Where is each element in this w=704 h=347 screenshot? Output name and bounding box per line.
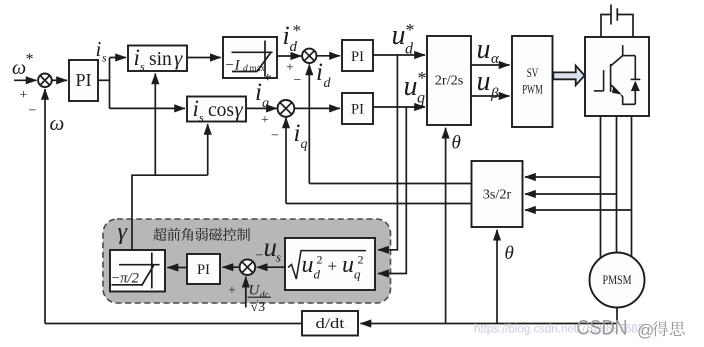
- wire PMSM shaft/encoder down: [616, 308, 618, 324]
- wire phase A: [600, 116, 602, 258]
- wire omega* input: [14, 79, 37, 81]
- wire speed PI output / i_s branch: [98, 79, 110, 81]
- wire phase B: [616, 116, 618, 252]
- svg-text:CSDN: CSDN: [577, 317, 628, 340]
- svg-text:*: *: [26, 51, 34, 68]
- wire sqrt block to us junction: [257, 266, 285, 268]
- wire theta into 3s/2r: [496, 230, 498, 324]
- PI q-axis current controller: [342, 93, 373, 124]
- block 3s/2r (Clarke/Park): [472, 161, 523, 227]
- saturation limiter -Idmax: [223, 37, 277, 78]
- svg-text:U: U: [249, 283, 261, 299]
- svg-text:PI: PI: [351, 102, 364, 118]
- PI d-axis current controller: [342, 40, 373, 71]
- summing junction (speed error): [38, 74, 52, 88]
- svg-text:q: q: [417, 90, 425, 107]
- svg-text:γ: γ: [118, 219, 128, 245]
- svg-text:d: d: [290, 39, 298, 55]
- wire phase C tap to 3s/2r: [525, 209, 632, 211]
- svg-text:u: u: [477, 34, 491, 65]
- svg-text:cos: cos: [208, 100, 234, 121]
- wire us junction to PI: [223, 266, 240, 268]
- PI speed controller: [69, 60, 98, 101]
- svg-text:2: 2: [358, 253, 364, 267]
- svg-text:+: +: [261, 113, 269, 128]
- svg-text:u: u: [477, 66, 491, 97]
- svg-text:θ: θ: [505, 243, 514, 264]
- svg-text:q: q: [301, 137, 308, 152]
- svg-text:−: −: [271, 129, 279, 144]
- svg-text:dc: dc: [260, 290, 269, 300]
- wire speed PI input: [52, 79, 67, 81]
- wire position feedback to d/dt: [361, 323, 618, 325]
- summing junction u_s error: [240, 259, 256, 275]
- svg-text:PI: PI: [197, 262, 210, 278]
- svg-text:3s/2r: 3s/2r: [483, 188, 512, 203]
- block inverter: [585, 37, 649, 116]
- svg-text:s: s: [140, 60, 145, 74]
- svg-text:d: d: [243, 64, 248, 74]
- label: lead-angle field weakening control (Chinese): [153, 228, 250, 241]
- svg-text:q: q: [354, 267, 361, 282]
- wire U_dc/sqrt3 input: [245, 277, 247, 308]
- wire phase A tap to 3s/2r: [525, 176, 601, 178]
- svg-text:s: s: [276, 250, 281, 265]
- motor PMSM: [590, 253, 645, 308]
- svg-text:@: @: [637, 321, 654, 340]
- svg-text:√3: √3: [251, 300, 266, 315]
- DC supply battery symbol: [601, 5, 633, 38]
- block sqrt(ud^2+uq^2): [285, 238, 375, 290]
- wire u_d* branch down to sqrt block: [378, 55, 397, 250]
- svg-text:−: −: [256, 249, 264, 264]
- svg-text:ω: ω: [12, 57, 26, 79]
- svg-text:s: s: [102, 51, 107, 65]
- svg-text:PI: PI: [351, 49, 364, 65]
- wire u_d* to 2r/2s: [373, 54, 425, 56]
- svg-text:i: i: [134, 45, 140, 70]
- wire omega feedback rise: [44, 89, 46, 324]
- svg-text:i: i: [193, 96, 199, 121]
- field-weakening region (dashed gray box): [103, 219, 391, 303]
- svg-text:d: d: [405, 41, 414, 58]
- svg-text:+: +: [20, 88, 28, 103]
- wire i_s to sin block: [110, 57, 127, 59]
- svg-text:u: u: [302, 252, 314, 278]
- svg-text:d/dt: d/dt: [316, 316, 346, 332]
- wire d/dt output to speed feedback: [45, 323, 302, 325]
- svg-text:u: u: [264, 232, 278, 262]
- wire phase B tap to 3s/2r: [525, 193, 617, 195]
- block i_s cos gamma: [187, 97, 246, 122]
- svg-text:*: *: [264, 70, 273, 89]
- saturation limiter -pi/2: [110, 250, 165, 292]
- wire iq junction to PI: [295, 107, 341, 109]
- svg-text:−I: −I: [225, 58, 241, 74]
- summing junction i_q: [278, 100, 295, 117]
- wire u_q* branch down to sqrt block: [378, 107, 406, 274]
- wire i_d feedback (from 3s/2r): [309, 183, 471, 185]
- summing junction i_d: [302, 49, 316, 63]
- wire cos to iq junction: [246, 107, 277, 109]
- block d/dt: [302, 311, 358, 336]
- svg-text:i: i: [294, 120, 301, 147]
- svg-text:ω: ω: [50, 111, 65, 135]
- svg-text:d: d: [314, 267, 321, 282]
- wire PI to -pi/2 limiter: [168, 267, 188, 269]
- svg-text:u: u: [392, 20, 406, 51]
- hollow arrow SVPWM to inverter: [553, 66, 584, 86]
- wire limiter to id junction: [277, 55, 301, 57]
- block i_s sin gamma: [128, 46, 187, 72]
- PI field-weakening controller: [187, 254, 220, 284]
- svg-text:i: i: [255, 79, 262, 106]
- wire gamma up to sin/cos blocks: [132, 175, 208, 250]
- wire id junction to PI: [316, 55, 340, 57]
- svg-text:+: +: [228, 284, 236, 299]
- wire u_beta: [471, 95, 510, 97]
- svg-text:PMSM: PMSM: [603, 272, 632, 287]
- block SVPWM: [512, 36, 553, 127]
- svg-text:d: d: [324, 76, 332, 91]
- svg-text:i: i: [316, 59, 323, 86]
- svg-text:u: u: [404, 71, 418, 102]
- wire i_s to cos block: [110, 107, 186, 109]
- svg-text:−π/2: −π/2: [111, 271, 139, 287]
- svg-text:θ: θ: [452, 133, 461, 154]
- block 2r/2s (inverse Park): [427, 36, 471, 125]
- wire u_q* to 2r/2s: [373, 106, 425, 108]
- svg-text:+: +: [328, 257, 338, 276]
- svg-text:PI: PI: [75, 70, 91, 90]
- wire i_q feedback (from 3s/2r): [286, 203, 472, 205]
- svg-text:sin: sin: [149, 49, 172, 70]
- svg-text:SV: SV: [527, 65, 539, 80]
- svg-text:*: *: [418, 68, 427, 88]
- svg-text:β: β: [490, 86, 499, 102]
- svg-text:γ: γ: [174, 46, 183, 70]
- wire u_alpha: [471, 64, 510, 66]
- wire theta into 2r/2s: [445, 128, 447, 324]
- svg-text:s: s: [199, 111, 204, 125]
- svg-text:−: −: [29, 104, 37, 119]
- svg-text:u: u: [342, 252, 354, 278]
- svg-text:*: *: [293, 21, 302, 40]
- svg-text:i: i: [96, 37, 102, 61]
- wire phase C: [631, 116, 633, 257]
- svg-text:2: 2: [317, 253, 323, 267]
- svg-text:−: −: [294, 73, 302, 88]
- svg-text:*: *: [406, 20, 415, 40]
- svg-text:PWM: PWM: [522, 82, 543, 97]
- svg-text:2r/2s: 2r/2s: [435, 74, 464, 89]
- svg-text:α: α: [491, 51, 500, 67]
- svg-text:γ: γ: [235, 97, 244, 121]
- IGBT with freewheel diode inside inverter: [594, 45, 641, 104]
